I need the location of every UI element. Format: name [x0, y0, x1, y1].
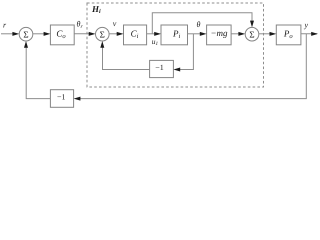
arrow into Po [270, 32, 277, 36]
wire S1 to Co [33, 33, 46, 35]
svg-text:Σ: Σ [249, 29, 254, 39]
arrow into outer -1 [74, 97, 81, 101]
svg-text:Po: Po [283, 29, 294, 40]
wire u1 feedforward up/over [152, 13, 252, 34]
svg-text:Co: Co [56, 29, 66, 40]
svg-text:Pi: Pi [172, 29, 181, 40]
svg-text:y: y [304, 21, 309, 30]
arrow into Ci [117, 32, 124, 36]
block inner -1 [150, 60, 174, 77]
svg-text:Σ: Σ [100, 29, 105, 39]
block Po [276, 25, 301, 45]
arrow into inner -1 [173, 68, 180, 72]
arrow into S3 top [250, 21, 254, 28]
arrow into mg [200, 32, 207, 36]
svg-text:−1: −1 [155, 63, 164, 72]
wire Po output y [301, 33, 317, 35]
arrow into S1 bottom [24, 41, 28, 48]
wire theta tap down [178, 34, 193, 70]
summer S2 circle [96, 27, 110, 41]
svg-text:Σ: Σ [23, 29, 28, 39]
arrow into S1 [12, 32, 19, 36]
dashed box H_i [87, 3, 264, 87]
block Pi [161, 25, 188, 45]
wire y tap down to outer feedback [78, 34, 306, 99]
wire Ci to Pi with u1 node [147, 33, 157, 35]
block Co [50, 25, 74, 45]
summer S3 circle [245, 27, 259, 41]
svg-text:Hi: Hi [91, 4, 101, 15]
svg-text:−mg: −mg [210, 28, 228, 38]
wire S2 to Ci [109, 33, 119, 35]
svg-text:ν: ν [113, 19, 117, 28]
wire Pi to mg with theta node [188, 33, 203, 35]
arrow into Pi [154, 32, 161, 36]
svg-text:θr: θr [77, 20, 84, 31]
block outer -1 [50, 90, 73, 108]
wire r input [1, 33, 15, 35]
wire inner -1 to S2 [103, 46, 150, 70]
arrow output y [311, 32, 318, 36]
block mg [207, 25, 232, 45]
svg-text:Ci: Ci [131, 29, 139, 40]
svg-text:r: r [3, 21, 7, 30]
block Ci [124, 25, 147, 45]
arrow into Co [44, 32, 51, 36]
arrow into S2 bottom [100, 41, 104, 48]
svg-text:−1: −1 [57, 93, 66, 102]
wire mg to S3 [231, 33, 240, 35]
wire outer -1 to S1 [26, 46, 50, 99]
wire S3 to Po [259, 33, 272, 35]
arrow into S2 [89, 32, 96, 36]
summer S1 circle [19, 27, 33, 41]
svg-text:u1: u1 [152, 37, 159, 47]
wire Co to S2 [74, 33, 91, 35]
arrow into S3 left [238, 32, 245, 36]
svg-text:θ: θ [197, 20, 201, 29]
